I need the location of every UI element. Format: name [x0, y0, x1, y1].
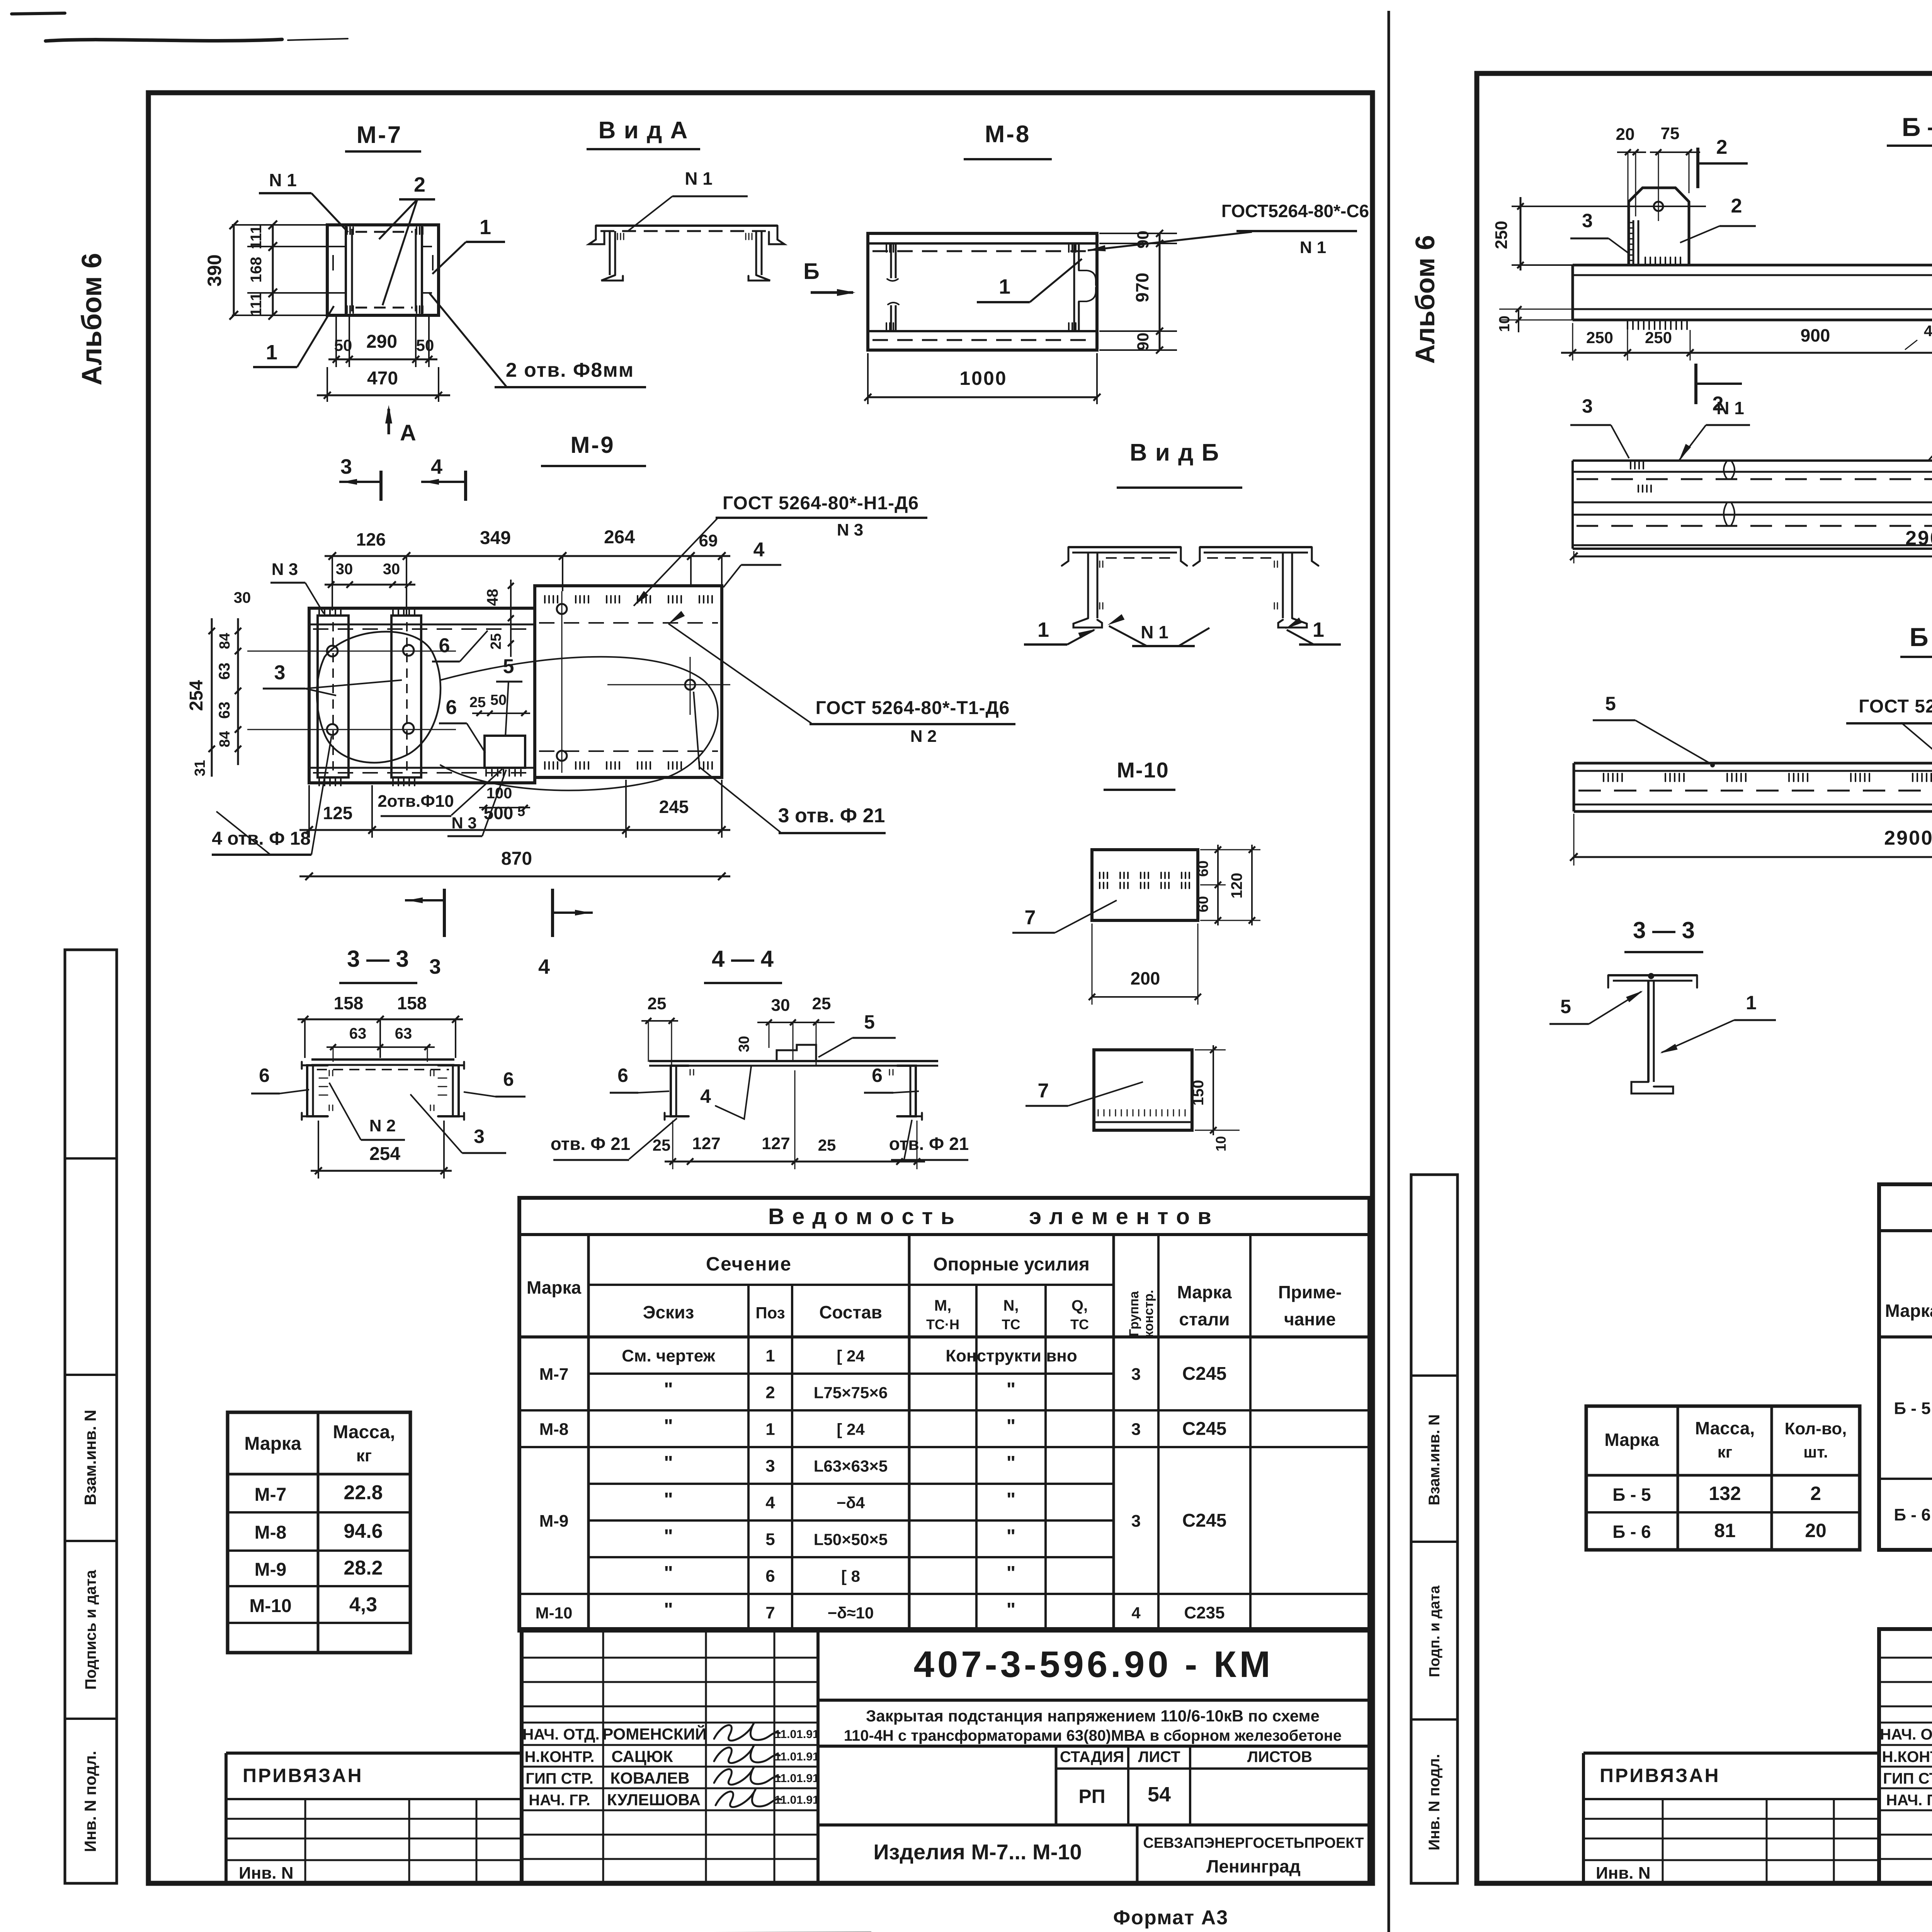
svg-text:3: 3	[1131, 1365, 1141, 1384]
svg-text:407-3-596.90 - КМ: 407-3-596.90 - КМ	[914, 1644, 1274, 1685]
svg-text:20: 20	[1616, 125, 1635, 144]
detail M-9 label N3 top-left	[270, 560, 324, 614]
svg-text:Марка: Марка	[244, 1434, 301, 1454]
svg-text:ЛИСТ: ЛИСТ	[1138, 1748, 1180, 1765]
view B left channel section	[1062, 547, 1187, 628]
svg-text:30: 30	[383, 561, 400, 578]
svg-text:4: 4	[431, 455, 442, 478]
svg-text:111: 111	[248, 225, 265, 249]
svg-text:Масса,: Масса,	[333, 1422, 395, 1442]
detail M-10 plate 1	[1092, 850, 1198, 920]
svg-text:э л е м е н т о в: э л е м е н т о в	[1029, 1204, 1212, 1229]
left mass table	[228, 1412, 410, 1653]
section 4-4 leader 5	[818, 1011, 896, 1057]
right margin label Альбом 6	[1410, 235, 1440, 364]
svg-text:30: 30	[336, 561, 353, 578]
svg-text:Конструкти вно: Конструкти вно	[946, 1347, 1077, 1366]
svg-text:ТС: ТС	[1002, 1316, 1020, 1332]
svg-text:Инв. N: Инв. N	[1596, 1864, 1650, 1883]
svg-text:11.01.91: 11.01.91	[774, 1772, 819, 1785]
view A leader N1	[628, 168, 748, 231]
svg-text:кг: кг	[356, 1446, 372, 1465]
svg-text:50: 50	[490, 692, 507, 708]
section 4-4 dim 30 rotated	[736, 1036, 752, 1052]
svg-text:120: 120	[1228, 873, 1245, 899]
svg-text:970: 970	[1132, 273, 1152, 303]
svg-text:111: 111	[248, 293, 265, 316]
svg-text:31: 31	[192, 760, 208, 776]
svg-text:L75×75×6: L75×75×6	[814, 1384, 888, 1402]
svg-text:Марка: Марка	[1177, 1282, 1232, 1302]
detail M-9 leader 5	[496, 655, 522, 736]
detail M-8 right channel end	[1069, 243, 1096, 331]
svg-text:КУЛЕШОВА: КУЛЕШОВА	[607, 1791, 701, 1809]
svg-text:25: 25	[488, 633, 504, 650]
svg-text:4 отв. Ф 18: 4 отв. Ф 18	[212, 828, 311, 849]
svg-text:Подп. и дата: Подп. и дата	[1427, 1585, 1443, 1677]
svg-text:150: 150	[1190, 1080, 1207, 1106]
svg-text:870: 870	[501, 849, 532, 869]
svg-text:245: 245	[659, 797, 689, 817]
svg-text:Подпись и дата: Подпись и дата	[82, 1570, 99, 1690]
svg-text:126: 126	[356, 529, 386, 549]
svg-text:6: 6	[446, 696, 457, 719]
view B right channel section	[1193, 547, 1318, 628]
detail M-9 dimension 870	[299, 849, 730, 880]
svg-text:М-7: М-7	[357, 122, 403, 148]
svg-text:": "	[664, 1562, 673, 1584]
svg-text:290: 290	[366, 332, 397, 352]
svg-text:М-10: М-10	[249, 1596, 291, 1616]
detail M-7 leader N1	[259, 170, 348, 232]
svg-text:5: 5	[765, 1530, 775, 1549]
left title block signature grid	[522, 1629, 1369, 1883]
detail M-7 left chain 111 168 111	[232, 221, 336, 320]
detail M-9 free-form lasso	[317, 632, 718, 791]
right attachment box ПРИВЯЗАН	[1583, 1753, 1879, 1883]
svg-text:81: 81	[1714, 1520, 1736, 1541]
svg-text:Эскиз: Эскиз	[643, 1302, 694, 1322]
beam B-5 dimension 2900 upper	[1570, 527, 1932, 563]
detail M-10 title	[1104, 758, 1175, 790]
svg-text:": "	[1007, 1415, 1016, 1437]
svg-text:7: 7	[765, 1604, 775, 1622]
right parts list table	[1879, 1184, 1932, 1550]
svg-text:М,: М,	[934, 1297, 951, 1314]
detail M-7 title	[345, 122, 421, 151]
section 4-4 note hole d21 left	[551, 1118, 677, 1160]
right margin stamp column	[1411, 1175, 1458, 1883]
beam B-6 title	[1900, 622, 1932, 657]
svg-text:4: 4	[1924, 323, 1932, 340]
svg-text:Марка: Марка	[1604, 1430, 1659, 1450]
section 3-3 dimension 254	[311, 1121, 452, 1179]
left title block description	[818, 1707, 1369, 1746]
detail M-8 flange lines	[868, 243, 1097, 340]
svg-text:127: 127	[692, 1134, 720, 1153]
detail M-9 section mark 3 bottom	[405, 889, 444, 978]
svg-text:28.2: 28.2	[344, 1557, 383, 1579]
svg-text:254: 254	[369, 1144, 400, 1164]
detail M-9 section mark 4 bottom	[538, 889, 593, 978]
svg-text:Б: Б	[803, 259, 820, 284]
detail M-9 channel strip 1	[318, 607, 349, 786]
right section 3-3 title	[1624, 917, 1703, 952]
svg-text:63: 63	[216, 702, 233, 719]
svg-text:2900: 2900	[1884, 827, 1932, 849]
svg-text:84: 84	[217, 633, 233, 649]
detail M-9 right plate	[535, 586, 722, 777]
detail M-9 right plate holes d21	[557, 591, 730, 773]
svg-text:2: 2	[1810, 1483, 1821, 1504]
beam B-6 leader 5 top	[1593, 693, 1715, 767]
detail M-7 bottom chain 50 290 50	[328, 317, 437, 367]
left margin label Альбом 6	[77, 253, 107, 386]
detail M-9 bottom chain 125 500 245	[299, 780, 730, 838]
svg-text:М-9: М-9	[539, 1512, 569, 1531]
svg-text:4,3: 4,3	[349, 1594, 377, 1616]
svg-text:132: 132	[1709, 1483, 1741, 1504]
svg-text:": "	[1007, 1562, 1016, 1584]
detail M-9 top chain 126 349 264 69	[325, 527, 730, 614]
beam B-6 beam view	[1574, 763, 1932, 811]
svg-text:54: 54	[1148, 1783, 1171, 1806]
svg-text:2отв.Ф10: 2отв.Ф10	[378, 792, 454, 811]
svg-text:4: 4	[753, 539, 765, 561]
svg-text:158: 158	[334, 993, 364, 1013]
detail M-9 mini dim 100 5	[479, 785, 530, 819]
detail M-7 leader 2	[379, 173, 435, 305]
svg-text:L50×50×5: L50×50×5	[814, 1531, 888, 1549]
svg-text:3: 3	[474, 1126, 485, 1147]
svg-text:НАЧ. ГР.: НАЧ. ГР.	[529, 1792, 590, 1809]
svg-text:5: 5	[864, 1011, 875, 1033]
svg-text:110-4Н с трансформаторами 63(8: 110-4Н с трансформаторами 63(80)МВА в сб…	[844, 1727, 1342, 1744]
detail M-8 right dims 90 970 90	[1099, 230, 1177, 354]
svg-text:−δ≈10: −δ≈10	[828, 1604, 874, 1622]
detail M-8 view arrow Б	[803, 259, 855, 296]
section 4-4 top dims 25 30 25	[641, 994, 835, 1066]
right mass table	[1586, 1406, 1860, 1550]
svg-text:6: 6	[765, 1567, 775, 1586]
svg-text:470: 470	[367, 368, 398, 389]
svg-text:РП: РП	[1078, 1786, 1105, 1807]
view A channel profile	[589, 226, 784, 281]
svg-text:кг: кг	[1718, 1443, 1733, 1461]
svg-text:ПРИВЯЗАН: ПРИВЯЗАН	[1600, 1765, 1720, 1786]
svg-text:127: 127	[762, 1134, 790, 1153]
svg-text:2: 2	[1716, 136, 1728, 158]
detail M-7 leader 1 bottom-left	[253, 306, 334, 367]
svg-text:30: 30	[234, 589, 251, 606]
svg-text:4 — 4: 4 — 4	[712, 946, 774, 972]
detail M-9 section mark 3 top	[339, 455, 381, 501]
svg-text:L63×63×5: L63×63×5	[814, 1457, 888, 1475]
svg-text:5: 5	[1560, 996, 1571, 1017]
svg-text:90: 90	[1134, 231, 1152, 249]
svg-text:349: 349	[480, 528, 511, 548]
svg-text:ГОСТ 5264-80*- Н1- Д6 - 50 /15: ГОСТ 5264-80*- Н1- Д6 - 50 /150	[1859, 696, 1932, 717]
svg-text:Взам.инв. N: Взам.инв. N	[1426, 1414, 1443, 1505]
beam B-5 bracket dims 20 75	[1616, 124, 1700, 216]
svg-text:НАЧ. ГР.: НАЧ. ГР.	[1886, 1792, 1932, 1809]
svg-text:[ 24: [ 24	[837, 1347, 865, 1365]
svg-text:М-8: М-8	[985, 121, 1031, 148]
svg-text:": "	[1007, 1489, 1016, 1510]
svg-text:1: 1	[1313, 618, 1324, 641]
svg-text:63: 63	[395, 1025, 412, 1042]
svg-text:1: 1	[765, 1347, 775, 1366]
detail M-8 title	[964, 121, 1052, 159]
svg-text:200: 200	[1131, 968, 1160, 988]
svg-text:": "	[664, 1415, 673, 1437]
detail M-9 note 3 holes d21	[694, 692, 886, 833]
beam B-6 dimension 2900 lower	[1570, 814, 1932, 866]
svg-text:50: 50	[416, 336, 434, 354]
svg-text:1: 1	[480, 216, 491, 239]
svg-text:5: 5	[1605, 693, 1616, 714]
svg-text:2900: 2900	[1905, 527, 1932, 549]
svg-text:N 2: N 2	[369, 1116, 396, 1135]
detail M-10 plate2 dims 150 10	[1190, 1045, 1240, 1151]
svg-text:С245: С245	[1182, 1510, 1227, 1531]
svg-text:Поз: Поз	[755, 1304, 785, 1322]
beam B-6 weld label GOST H1-D6-50/150	[1846, 696, 1932, 766]
detail M-9 label N3 bottom	[447, 770, 506, 836]
svg-text:10: 10	[1497, 316, 1513, 332]
svg-text:4: 4	[1131, 1604, 1141, 1622]
svg-text:": "	[664, 1452, 673, 1474]
svg-text:М-9: М-9	[570, 432, 615, 458]
svg-text:5: 5	[517, 803, 525, 819]
svg-text:См. чертеж: См. чертеж	[622, 1347, 716, 1366]
svg-text:5: 5	[503, 655, 514, 678]
svg-text:отв. Ф 21: отв. Ф 21	[551, 1134, 631, 1154]
svg-text:В е д о м о с т ь: В е д о м о с т ь	[768, 1204, 955, 1229]
svg-text:": "	[1007, 1452, 1016, 1474]
detail M-9 weld label GOST N2	[668, 611, 1015, 746]
section 4-4 title	[704, 946, 782, 983]
svg-text:3: 3	[274, 662, 286, 684]
section 3-3 top plate	[311, 1060, 454, 1070]
detail M-9 weld label GOST N3 top	[634, 493, 927, 606]
left title block stage/sheet cells	[1056, 1746, 1369, 1825]
svg-text:3 — 3: 3 — 3	[1633, 917, 1695, 943]
svg-text:": "	[1007, 1526, 1016, 1547]
svg-text:Формат А3: Формат А3	[1113, 1906, 1228, 1929]
scan seam between sheets	[1388, 11, 1390, 1932]
detail M-9 mini dims 25 50	[469, 692, 530, 716]
left title block document number 407-3-596.90-KM	[818, 1644, 1369, 1700]
beam B-5 bracket plate	[1512, 188, 1706, 264]
svg-text:3 — 3: 3 — 3	[347, 946, 409, 972]
detail M-10 plate1 dim 200	[1089, 923, 1201, 1005]
svg-text:1: 1	[1746, 992, 1757, 1014]
svg-text:": "	[664, 1599, 673, 1621]
svg-text:3: 3	[340, 455, 352, 478]
svg-text:25: 25	[818, 1136, 836, 1154]
section 4-4 right hanging channel	[889, 1066, 922, 1120]
section 4-4 note hole d21 right	[889, 1120, 969, 1160]
svg-text:3: 3	[1582, 395, 1593, 417]
detail M-9 section mark 4 top	[421, 455, 466, 501]
svg-text:Группа: Группа	[1127, 1291, 1141, 1336]
detail M-7 channel strips	[333, 225, 433, 315]
beam B-5 dim 10 left	[1497, 306, 1573, 332]
detail M-9 dims 48 25	[484, 580, 514, 657]
svg-text:СТАДИЯ: СТАДИЯ	[1060, 1748, 1124, 1765]
svg-text:250: 250	[1586, 328, 1613, 347]
svg-text:2: 2	[1731, 195, 1742, 217]
svg-text:С235: С235	[1184, 1604, 1225, 1622]
section 4-4 label 4	[700, 1066, 751, 1119]
detail M-7 leader 1 right	[432, 216, 505, 274]
svg-text:": "	[664, 1489, 673, 1510]
detail M-7 view arrow A	[385, 405, 416, 446]
svg-text:N 3: N 3	[272, 560, 298, 579]
svg-text:25: 25	[812, 994, 831, 1013]
svg-text:4: 4	[700, 1085, 711, 1107]
svg-text:Н.КОНТР.: Н.КОНТР.	[525, 1748, 595, 1765]
svg-text:63: 63	[216, 663, 233, 680]
svg-text:М-10: М-10	[536, 1604, 573, 1622]
detail M-8 dimension 1000	[864, 353, 1100, 404]
svg-text:ГОСТ5264-80*-С6: ГОСТ5264-80*-С6	[1221, 201, 1369, 221]
detail M-7 dimension 470	[317, 367, 450, 402]
view B title	[1117, 439, 1242, 488]
beam B-5 plan view	[1573, 265, 1932, 329]
right section 3-3 leader 1	[1660, 992, 1776, 1053]
svg-text:250: 250	[1645, 328, 1672, 347]
svg-text:Ленинград: Ленинград	[1206, 1856, 1301, 1876]
section 3-3 chain 158 158	[298, 993, 463, 1058]
beam B-5 elevation view	[1573, 461, 1932, 549]
svg-text:": "	[664, 1379, 673, 1400]
svg-text:254: 254	[186, 680, 207, 711]
svg-text:ТС: ТС	[1070, 1316, 1089, 1332]
svg-text:": "	[1007, 1379, 1016, 1400]
section 4-4 bottom chain 25 127 127 25	[653, 1070, 925, 1169]
svg-text:Инв. N подл.: Инв. N подл.	[1426, 1754, 1443, 1850]
svg-text:6: 6	[503, 1068, 514, 1090]
svg-text:Б - 6: Б - 6	[1612, 1522, 1651, 1542]
svg-text:Масса,: Масса,	[1695, 1418, 1755, 1438]
svg-text:чание: чание	[1284, 1309, 1336, 1329]
svg-text:25: 25	[648, 994, 667, 1013]
svg-text:М-7: М-7	[255, 1485, 287, 1505]
svg-text:Сечение: Сечение	[706, 1253, 792, 1275]
svg-text:А: А	[400, 420, 416, 446]
left format note	[1113, 1906, 1228, 1929]
svg-text:Состав: Состав	[819, 1302, 882, 1322]
svg-text:Б - 5: Б - 5	[1894, 1399, 1930, 1418]
scan smudge top-left	[12, 13, 348, 41]
svg-text:В и д А: В и д А	[599, 117, 689, 144]
detail M-9 leader 4 top right	[723, 539, 781, 587]
svg-text:ГОСТ 5264-80*-Т1-Д6: ГОСТ 5264-80*-Т1-Д6	[816, 698, 1010, 718]
svg-text:Н.КОНТР.: Н.КОНТР.	[1882, 1748, 1932, 1765]
svg-text:В и д Б: В и д Б	[1130, 439, 1219, 466]
svg-text:22.8: 22.8	[344, 1481, 383, 1504]
detail M-7 plan outline	[327, 225, 439, 315]
detail M-7 dimension 390	[204, 221, 238, 320]
svg-text:РОМЕНСКИЙ: РОМЕНСКИЙ	[602, 1725, 707, 1743]
svg-text:390: 390	[204, 254, 225, 286]
svg-text:20: 20	[1805, 1520, 1827, 1541]
svg-text:шт.: шт.	[1803, 1443, 1828, 1461]
svg-text:7: 7	[1025, 906, 1036, 929]
svg-text:125: 125	[323, 803, 353, 823]
svg-text:констр.: констр.	[1141, 1290, 1156, 1338]
svg-text:−δ4: −δ4	[837, 1494, 865, 1512]
detail M-8 leader 1	[977, 259, 1082, 302]
svg-text:N 3: N 3	[837, 520, 863, 539]
section 3-3 title	[339, 946, 417, 983]
svg-text:ГИП СТР.: ГИП СТР.	[526, 1770, 593, 1787]
svg-text:48: 48	[484, 589, 501, 606]
svg-text:6: 6	[259, 1065, 270, 1086]
svg-text:N 1: N 1	[269, 170, 297, 190]
svg-text:Кол-во,: Кол-во,	[1785, 1419, 1847, 1438]
beam B-5 section mark 2 top	[1698, 136, 1748, 188]
svg-text:7: 7	[1038, 1080, 1049, 1102]
svg-text:N 3: N 3	[451, 814, 476, 832]
svg-text:N 1: N 1	[1300, 238, 1326, 257]
svg-text:М-9: М-9	[255, 1560, 287, 1580]
svg-text:2: 2	[414, 173, 425, 196]
svg-text:ЛИСТОВ: ЛИСТОВ	[1247, 1748, 1312, 1765]
svg-text:Изделия М-7... М-10: Изделия М-7... М-10	[873, 1840, 1082, 1864]
svg-text:264: 264	[604, 527, 635, 548]
svg-text:Б - 6: Б - 6	[1894, 1505, 1930, 1524]
detail M-10 plate 2	[1094, 1050, 1192, 1130]
svg-text:60: 60	[1195, 896, 1211, 912]
svg-text:[ 24: [ 24	[837, 1420, 865, 1439]
svg-text:М-8: М-8	[539, 1420, 569, 1439]
svg-text:N 1: N 1	[1141, 622, 1168, 642]
detail M-9 left dims 254 31	[186, 618, 215, 777]
detail M-9 small bottom plate	[485, 736, 525, 776]
section 4-4 top plate	[649, 1061, 938, 1066]
svg-text:25: 25	[653, 1136, 671, 1154]
svg-text:Инв. N: Инв. N	[239, 1864, 293, 1883]
svg-text:Взам.инв. N: Взам.инв. N	[81, 1410, 99, 1505]
beam B-5 dim 250 left	[1492, 197, 1573, 270]
svg-text:Q,: Q,	[1071, 1297, 1088, 1314]
left title block product name	[818, 1825, 1369, 1883]
svg-text:2 отв. Ф8мм: 2 отв. Ф8мм	[506, 359, 634, 381]
left attachment box ПРИВЯЗАН	[226, 1753, 522, 1883]
svg-text:900: 900	[1801, 325, 1830, 345]
detail M-9 base plate	[309, 608, 535, 783]
svg-text:Альбом 6: Альбом 6	[1410, 235, 1440, 364]
svg-text:168: 168	[248, 257, 265, 283]
svg-text:Инв. N подл.: Инв. N подл.	[81, 1751, 99, 1852]
svg-text:3: 3	[1582, 210, 1593, 231]
svg-text:N 2: N 2	[910, 727, 937, 746]
svg-text:63: 63	[349, 1025, 367, 1042]
section 3-3 label N2	[329, 1083, 405, 1140]
detail M-9 note 4 holes d18	[212, 736, 332, 855]
svg-text:6: 6	[617, 1065, 628, 1086]
svg-text:25: 25	[469, 694, 486, 711]
svg-text:94.6: 94.6	[344, 1520, 383, 1543]
svg-text:158: 158	[397, 993, 427, 1013]
detail M-8 left channel end	[886, 243, 899, 331]
svg-text:Марка: Марка	[527, 1277, 582, 1298]
detail M-9 holes d18 with axes	[247, 645, 456, 735]
svg-text:11.01.91: 11.01.91	[774, 1728, 819, 1741]
